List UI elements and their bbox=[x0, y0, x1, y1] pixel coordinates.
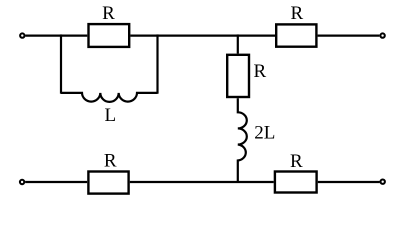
svg-text:R: R bbox=[104, 150, 117, 171]
svg-text:R: R bbox=[254, 61, 267, 82]
svg-text:R: R bbox=[291, 3, 304, 24]
svg-text:L: L bbox=[104, 105, 116, 126]
svg-text:2L: 2L bbox=[254, 122, 275, 143]
svg-text:R: R bbox=[290, 151, 303, 172]
svg-text:R: R bbox=[102, 3, 115, 24]
